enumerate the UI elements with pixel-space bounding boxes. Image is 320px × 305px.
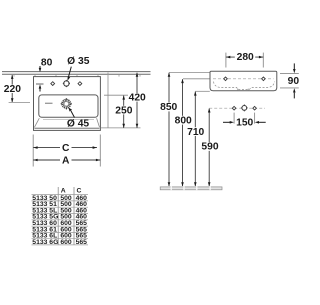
svg-text:850: 850	[160, 102, 177, 113]
C A extension right	[99, 135, 101, 167]
extension line basin front right	[101, 127, 141, 129]
dim 80 tick at holes	[36, 83, 44, 85]
mounting hole left diamond	[232, 106, 236, 110]
tap hole middle circle	[63, 80, 70, 87]
svg-text:90: 90	[288, 76, 300, 87]
svg-text:250: 250	[115, 105, 132, 116]
dim 590 line	[208, 109, 210, 187]
dim D45 leader arrow	[71, 111, 75, 118]
svg-text:C: C	[77, 187, 82, 194]
mounting hole right diamond	[253, 106, 257, 110]
svg-text:280: 280	[237, 52, 254, 63]
svg-text:590: 590	[201, 142, 218, 153]
svg-text:710: 710	[187, 127, 204, 138]
dim 800 line	[182, 79, 184, 186]
tap holes centerline front view	[183, 78, 210, 80]
svg-text:220: 220	[4, 84, 21, 95]
extension line bowl top to 250	[104, 94, 128, 96]
floor bar	[160, 187, 222, 190]
dim 220 extension to drain	[9, 101, 30, 103]
basin outer rect (top view)	[34, 77, 101, 131]
svg-text:150: 150	[236, 118, 253, 129]
svg-text:600: 600	[60, 239, 72, 246]
wall shelf double line (top view)	[2, 72, 151, 75]
dim 280 extension lines	[225, 53, 227, 68]
table row lines	[32, 195, 89, 245]
svg-text:A: A	[61, 187, 66, 194]
svg-text:Ø 45: Ø 45	[67, 118, 90, 129]
svg-text:A: A	[62, 156, 70, 167]
svg-text:565: 565	[76, 239, 88, 246]
svg-text:C: C	[62, 143, 70, 154]
bowl rounded rect	[39, 95, 98, 117]
bowl corner diagonal right	[97, 118, 100, 127]
dim 80 down arrow	[39, 66, 41, 71]
svg-text:80: 80	[41, 57, 53, 68]
dim 710 line	[194, 92, 196, 186]
table column line 2	[73, 187, 75, 245]
dim C line	[33, 147, 97, 149]
svg-text:800: 800	[175, 115, 192, 126]
wall hatch ticks	[14, 74, 140, 76]
dim 220 line	[11, 75, 13, 102]
mounting holes centerline	[209, 107, 265, 109]
dim 250 line	[123, 96, 125, 128]
front view hole left diamond	[224, 77, 228, 81]
svg-text:420: 420	[129, 93, 146, 104]
front view hole right diamond	[262, 77, 266, 81]
dim 90 extension lines	[280, 73, 299, 75]
dim 90 down arrow	[293, 63, 295, 69]
extension shelf to front view	[169, 71, 210, 73]
projection line right of basin	[107, 73, 109, 129]
C A extension left	[32, 135, 34, 167]
dim 150 left arrow	[223, 121, 230, 123]
dim 420 line	[136, 73, 138, 128]
dim 80 up arrow	[39, 87, 41, 92]
table rows	[32, 195, 87, 246]
bowl bottom faint line	[43, 118, 94, 120]
tap hole left diamond	[51, 82, 55, 86]
dim 150 extension lines	[233, 113, 235, 124]
hidden bowl outline dashed	[214, 82, 275, 90]
svg-text:5133 6G: 5133 6G	[32, 239, 58, 246]
dim 850 line	[168, 73, 170, 186]
bowl corner diagonal left	[34, 118, 39, 127]
water line dash	[45, 102, 53, 104]
svg-text:Ø 35: Ø 35	[67, 56, 90, 67]
tap hole right diamond	[78, 82, 82, 86]
dim A line	[33, 159, 100, 161]
dim 90 up arrow	[293, 93, 295, 99]
hidden drain lines	[237, 89, 239, 91]
dim D35 leader arrow	[68, 67, 71, 78]
mounting hole circle	[241, 104, 248, 111]
drain circle	[61, 98, 72, 109]
table column line 1	[57, 187, 59, 245]
dim 280 line	[226, 56, 263, 58]
extension basin bottom to 710	[195, 90, 210, 92]
basin front view	[210, 71, 277, 91]
dim 150 right arrow	[259, 121, 266, 123]
basin inner front edge line	[34, 127, 99, 129]
